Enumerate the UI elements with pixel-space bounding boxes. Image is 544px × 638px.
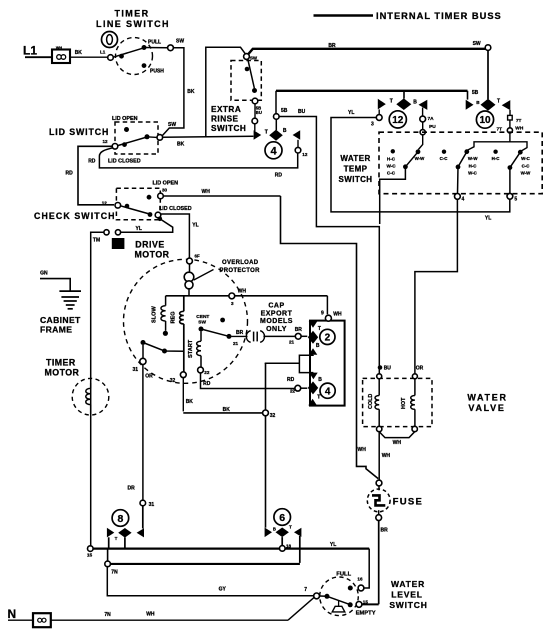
svg-text:T: T (265, 130, 268, 136)
svg-text:T: T (317, 395, 320, 401)
svg-text:L1: L1 (100, 49, 106, 54)
svg-text:OR: OR (145, 373, 153, 379)
svg-text:22: 22 (290, 388, 296, 393)
svg-text:FUSE: FUSE (393, 496, 424, 507)
svg-text:CAP: CAP (268, 303, 284, 310)
svg-text:W-W: W-W (521, 171, 532, 176)
svg-text:EMPTY: EMPTY (356, 611, 376, 617)
svg-text:MODELS: MODELS (260, 318, 293, 325)
svg-text:COLD: COLD (368, 394, 374, 409)
svg-text:B: B (273, 526, 276, 531)
svg-text:YL: YL (485, 216, 491, 222)
svg-text:4: 4 (270, 145, 277, 157)
svg-text:SW: SW (473, 41, 481, 47)
svg-text:TEMP: TEMP (344, 165, 368, 174)
svg-text:LID OPEN: LID OPEN (153, 181, 179, 187)
svg-text:OR: OR (416, 365, 424, 371)
svg-text:3: 3 (371, 122, 374, 128)
svg-text:GY: GY (219, 587, 227, 593)
svg-text:T: T (115, 536, 118, 541)
svg-text:T: T (390, 98, 393, 104)
svg-text:21: 21 (233, 341, 239, 346)
svg-text:10: 10 (479, 115, 491, 126)
svg-text:W-W: W-W (415, 156, 426, 161)
svg-text:YL: YL (192, 222, 198, 228)
svg-text:PUSH: PUSH (150, 69, 164, 75)
svg-text:FRAME: FRAME (40, 324, 72, 334)
svg-text:EXPORT: EXPORT (261, 310, 293, 317)
svg-text:L1: L1 (23, 44, 37, 58)
svg-text:FULL: FULL (336, 571, 351, 577)
svg-text:4: 4 (325, 386, 331, 397)
svg-text:31: 31 (133, 367, 139, 373)
svg-text:H-C: H-C (492, 156, 501, 161)
svg-text:W-C: W-C (468, 171, 478, 176)
svg-text:C-C: C-C (440, 156, 449, 161)
svg-text:4: 4 (462, 196, 465, 202)
svg-text:T: T (318, 326, 321, 332)
svg-text:BK: BK (177, 142, 185, 148)
svg-text:N: N (8, 607, 17, 621)
svg-text:BU: BU (256, 110, 262, 115)
svg-text:WH: WH (358, 447, 367, 453)
svg-text:VALVE: VALVE (468, 403, 505, 413)
svg-text:BR: BR (328, 43, 336, 49)
svg-text:RD: RD (287, 377, 295, 383)
svg-text:YL: YL (348, 110, 354, 116)
svg-text:3: 3 (231, 301, 234, 306)
svg-text:B: B (413, 99, 417, 105)
svg-text:2: 2 (325, 333, 331, 344)
svg-text:BK: BK (187, 89, 195, 95)
svg-text:WH: WH (515, 125, 524, 131)
svg-text:LID CLOSED: LID CLOSED (108, 158, 141, 164)
svg-text:BK: BK (75, 50, 83, 56)
svg-text:OVERLOAD: OVERLOAD (222, 260, 259, 266)
svg-text:SW: SW (176, 39, 184, 45)
svg-text:MOTOR: MOTOR (45, 367, 80, 377)
svg-text:SWITCH: SWITCH (211, 124, 246, 133)
svg-text:WATER: WATER (340, 154, 370, 163)
svg-text:32: 32 (270, 413, 276, 419)
svg-text:5B: 5B (281, 108, 288, 114)
svg-text:SW: SW (198, 319, 206, 325)
svg-text:REG: REG (171, 311, 177, 323)
svg-text:12: 12 (103, 139, 109, 144)
svg-text:BK: BK (186, 399, 194, 405)
svg-text:H-C: H-C (387, 156, 396, 161)
svg-text:RINSE: RINSE (211, 115, 239, 124)
svg-text:GN: GN (40, 270, 48, 276)
svg-text:SLOW: SLOW (152, 306, 158, 323)
svg-text:5B: 5B (472, 90, 479, 96)
svg-text:TIMER: TIMER (46, 358, 76, 368)
svg-text:B: B (283, 128, 287, 134)
svg-text:RD: RD (88, 158, 96, 164)
svg-text:12: 12 (302, 152, 308, 157)
svg-text:WH: WH (202, 189, 211, 195)
svg-text:T: T (497, 99, 500, 105)
svg-text:7T: 7T (516, 118, 522, 124)
svg-text:DR: DR (128, 485, 136, 491)
svg-text:B: B (476, 100, 480, 105)
svg-text:6F: 6F (195, 253, 200, 258)
svg-text:PU: PU (429, 124, 436, 130)
svg-text:18: 18 (286, 543, 292, 548)
svg-text:MOTOR: MOTOR (134, 250, 169, 260)
svg-text:LINE SWITCH: LINE SWITCH (96, 19, 170, 29)
svg-text:INTERNAL TIMER BUSS: INTERNAL TIMER BUSS (376, 11, 502, 21)
svg-text:YL: YL (136, 226, 142, 232)
svg-text:CENT: CENT (196, 314, 209, 320)
svg-text:C-C: C-C (522, 163, 531, 168)
svg-text:BR: BR (295, 327, 303, 333)
svg-text:WH: WH (146, 612, 155, 618)
svg-text:22: 22 (204, 370, 210, 375)
svg-text:9: 9 (321, 311, 324, 317)
svg-text:DB: DB (115, 243, 122, 248)
svg-text:8: 8 (117, 513, 123, 525)
svg-text:LID SWITCH: LID SWITCH (49, 127, 109, 137)
svg-text:BR: BR (236, 330, 244, 336)
svg-text:B: B (318, 377, 322, 383)
svg-text:EXTRA: EXTRA (211, 105, 241, 114)
svg-text:WH: WH (382, 453, 391, 459)
svg-text:W-W: W-W (468, 156, 479, 161)
svg-text:WH: WH (238, 289, 247, 295)
svg-text:WATER: WATER (467, 393, 507, 403)
svg-text:PULL: PULL (148, 40, 161, 46)
svg-text:START: START (188, 339, 194, 358)
svg-text:7: 7 (304, 587, 307, 593)
svg-text:LID CLOSED: LID CLOSED (159, 206, 192, 212)
svg-text:LEVEL: LEVEL (391, 590, 422, 600)
svg-text:WH: WH (333, 311, 342, 317)
svg-text:12: 12 (392, 115, 404, 126)
svg-text:TM: TM (93, 238, 100, 244)
svg-text:RD: RD (66, 171, 74, 177)
svg-text:YL: YL (330, 542, 336, 548)
svg-text:DRIVE: DRIVE (135, 240, 164, 250)
svg-text:RD: RD (275, 172, 283, 178)
svg-text:BR: BR (381, 528, 389, 534)
svg-text:ONLY: ONLY (266, 326, 287, 333)
svg-text:H-C: H-C (469, 163, 478, 168)
svg-text:SW: SW (168, 122, 176, 128)
svg-text:WATER: WATER (391, 579, 425, 589)
svg-text:7N: 7N (104, 612, 111, 618)
svg-text:WH: WH (56, 46, 63, 50)
svg-text:BU: BU (384, 365, 392, 371)
svg-text:SWITCH: SWITCH (339, 175, 373, 184)
svg-text:WH: WH (393, 440, 402, 446)
svg-text:TIMER: TIMER (115, 9, 150, 19)
svg-text:6: 6 (279, 512, 285, 524)
svg-text:30: 30 (162, 188, 168, 193)
svg-text:CHECK SWITCH: CHECK SWITCH (34, 211, 116, 221)
svg-text:7A: 7A (428, 116, 435, 122)
svg-text:7N: 7N (111, 570, 118, 576)
svg-text:W-C: W-C (521, 156, 531, 161)
svg-text:C-C: C-C (387, 170, 396, 175)
svg-text:32: 32 (170, 378, 176, 384)
svg-text:T: T (289, 525, 292, 530)
svg-text:BU: BU (298, 109, 306, 115)
svg-text:RD: RD (203, 381, 211, 387)
svg-text:12: 12 (102, 201, 108, 206)
svg-text:LID OPEN: LID OPEN (112, 116, 138, 122)
svg-text:SW: SW (250, 56, 258, 61)
svg-text:PROTECTOR: PROTECTOR (220, 268, 261, 274)
svg-text:5: 5 (514, 196, 517, 202)
svg-text:31: 31 (149, 502, 155, 508)
svg-text:B: B (316, 343, 320, 349)
svg-text:BK: BK (223, 407, 231, 413)
svg-text:21: 21 (289, 339, 295, 344)
svg-text:HOT: HOT (401, 397, 407, 409)
svg-text:16: 16 (357, 577, 363, 582)
svg-text:SWITCH: SWITCH (389, 600, 427, 610)
svg-text:15: 15 (87, 553, 93, 559)
svg-text:W-C: W-C (386, 163, 396, 168)
